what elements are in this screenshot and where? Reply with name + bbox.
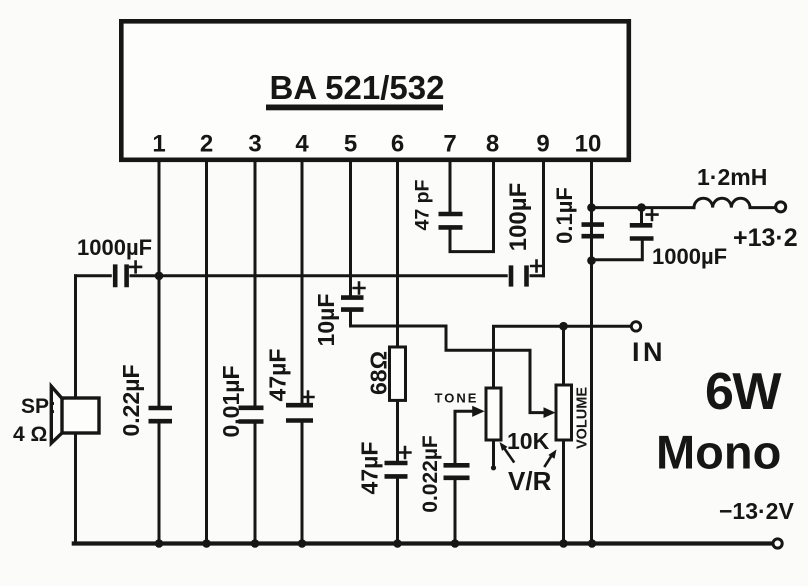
svg-text:IN: IN — [632, 337, 666, 367]
wire: top right supply run to inductor — [592, 206, 695, 209]
wire: volume pot bottom to ground rail — [562, 440, 565, 544]
speaker SP1 driver box — [62, 398, 99, 433]
pin number 6 — [391, 131, 404, 158]
label: SP. — [21, 395, 56, 418]
underline of IC title — [266, 105, 443, 111]
ground rail (bottom bus) — [74, 541, 773, 545]
label: 10uF — [313, 294, 339, 347]
svg-text:TONE: TONE — [435, 391, 479, 406]
plus sign of C4 — [303, 392, 314, 403]
wire: pin 5 through 10uF then stepped run to volume wiper — [351, 160, 547, 413]
svg-text:10µF: 10µF — [313, 294, 339, 347]
svg-text:1000µF: 1000µF — [77, 235, 152, 260]
svg-text:3: 3 — [248, 131, 261, 158]
capacitor C5 10uF plates — [341, 298, 364, 310]
svg-text:1000µF: 1000µF — [652, 244, 727, 269]
svg-text:68Ω: 68Ω — [366, 351, 392, 395]
VR1 bottom stub and end dot — [491, 440, 496, 470]
label: -13.2V — [719, 498, 794, 524]
label: 68 ohm — [366, 351, 392, 395]
svg-text:0.01µF: 0.01µF — [218, 365, 244, 437]
speaker SP1 horn — [51, 386, 62, 443]
svg-text:0.022µF: 0.022µF — [419, 435, 442, 513]
svg-text:6W: 6W — [705, 363, 782, 421]
pointer arrow to VR2 from 10K label — [545, 450, 557, 467]
junction: pin10 / 1000uF branch bottom — [587, 256, 596, 265]
label: 1.2mH — [697, 164, 767, 190]
wire: pin 1 down to ground rail — [158, 160, 161, 544]
plus sign of C8 — [531, 261, 542, 272]
wire: pin 9 down to bus — [542, 160, 545, 276]
svg-text:8: 8 — [486, 131, 499, 158]
junction: pin10 / supply top — [587, 203, 596, 212]
plus sign of C1 — [130, 262, 141, 273]
resistor R1 68 ohm body — [390, 347, 406, 400]
pin number 8 — [486, 131, 499, 158]
label: 10K — [507, 428, 550, 454]
svg-text:VOLUME: VOLUME — [575, 387, 591, 449]
capacitor C4 47uF plates — [286, 405, 313, 420]
svg-text:+13·2: +13·2 — [733, 224, 798, 252]
label: 1000uF (top right) — [652, 244, 727, 269]
label: IN — [632, 337, 666, 367]
terminal: -13.2V open circle — [773, 539, 782, 548]
pin number 3 — [248, 131, 261, 158]
pin number 1 — [152, 131, 165, 158]
terminal: IN open circle — [631, 322, 640, 331]
svg-text:1: 1 — [152, 131, 165, 158]
label: 0.022uF — [419, 435, 442, 513]
label: 100uF — [505, 183, 532, 252]
svg-text:0.1µF: 0.1µF — [552, 187, 577, 244]
svg-text:5: 5 — [344, 131, 357, 158]
label: 47 pF — [411, 179, 433, 230]
potentiometer VR1 10K tone body — [486, 388, 501, 440]
label: 0.1uF — [552, 187, 577, 244]
svg-text:V/R: V/R — [508, 466, 552, 496]
volume wiper arrowhead into VR2 — [544, 407, 556, 418]
terminal: +13.2 open circle — [776, 202, 786, 212]
plus sign of C10 — [647, 209, 658, 220]
label: V/R — [508, 466, 552, 496]
wire: pin 3 down to ground rail — [254, 160, 257, 544]
pin number 9 — [536, 131, 549, 158]
svg-text:10: 10 — [575, 131, 602, 158]
label: VOLUME — [575, 387, 591, 449]
svg-text:47µF: 47µF — [265, 349, 291, 402]
capacitor C10 1000uF (top right) with leads — [592, 208, 654, 260]
pin number 7 — [443, 131, 456, 158]
wire: left vertical branch to speaker and ground rail — [74, 276, 77, 544]
capacitor C11 0.022uF plates — [444, 465, 470, 478]
pin number 10 — [575, 131, 602, 158]
pin number 2 — [200, 131, 213, 158]
label: 4 ohm — [13, 423, 47, 446]
inductor L1 1.2mH — [694, 198, 776, 207]
wire: pin 6 down through 68 ohm and 47uF to ground rail — [396, 160, 399, 544]
svg-text:4 Ω: 4 Ω — [13, 423, 47, 446]
wire: horizontal bus y=276 from left branch to pin 9 — [76, 274, 544, 277]
label: TONE — [435, 391, 479, 406]
wire: pin 10 power line down to ground rail — [590, 160, 593, 544]
capacitor C7 47pF plates — [439, 214, 463, 227]
svg-text:100µF: 100µF — [505, 183, 532, 252]
svg-text:SP:: SP: — [21, 395, 56, 418]
plus sign of C6 — [400, 447, 411, 458]
pin number 4 — [295, 131, 309, 158]
tone wiper arrowhead into VR1 — [472, 406, 484, 417]
svg-text:2: 2 — [200, 131, 213, 158]
label: BA 521/532 — [270, 69, 445, 106]
wire: pin 7 to 47pF then over to pin 8 — [450, 160, 494, 252]
svg-text:47 pF: 47 pF — [411, 179, 433, 230]
svg-text:7: 7 — [443, 131, 456, 158]
svg-text:−13·2V: −13·2V — [719, 498, 794, 524]
label: 47uF (pin 4) — [265, 349, 291, 402]
wire: pin 2 down to ground rail — [205, 160, 208, 544]
svg-text:47µF: 47µF — [357, 442, 383, 495]
wire: tone net with 0.022uF down to ground rail — [455, 411, 477, 543]
svg-text:BA 521/532: BA 521/532 — [270, 69, 445, 106]
wire: pin 4 down to ground rail — [301, 160, 304, 544]
label: 0.22uF — [118, 364, 144, 436]
label: 6W — [705, 363, 782, 421]
label: 1000uF (left) — [77, 235, 152, 260]
IC U1 BA521/532 body — [121, 21, 629, 160]
svg-text:9: 9 — [536, 131, 549, 158]
capacitor C1 1000uF (left, on bus) plates — [115, 264, 126, 287]
pointer arrow to VR1 from 10K label — [500, 442, 514, 462]
svg-text:0.22µF: 0.22µF — [118, 364, 144, 436]
label: 47uF (pin 6) — [357, 442, 383, 495]
label: 0.01uF — [218, 365, 244, 437]
wire: volume pot top branch — [562, 326, 565, 385]
pin number 5 — [344, 131, 357, 158]
junction: bus / pin1 — [155, 272, 164, 281]
label: +13.2 — [733, 224, 798, 252]
capacitor C9 0.1uF plates — [582, 225, 605, 237]
wire: IN line to 10K pot top — [494, 326, 632, 388]
svg-text:10K: 10K — [507, 428, 550, 454]
capacitor C8 100uF (horizontal, on bus) plates — [511, 265, 527, 286]
svg-text:4: 4 — [295, 131, 309, 158]
capacitor C2 0.22uF plates — [149, 408, 173, 421]
junction: IN line / volume pot — [559, 322, 568, 331]
potentiometer VR2 volume body — [556, 385, 572, 440]
junction dots on ground rail — [155, 539, 597, 548]
capacitor C6 47uF (pin 6) plates — [385, 463, 408, 476]
svg-text:Mono: Mono — [656, 426, 781, 479]
plus sign of C5 — [354, 283, 365, 294]
svg-text:1·2mH: 1·2mH — [697, 164, 767, 190]
svg-text:6: 6 — [391, 131, 404, 158]
capacitor C3 0.01uF plates — [239, 408, 264, 422]
label: Mono — [656, 426, 781, 479]
junction: 1000uF branch top — [637, 203, 646, 212]
